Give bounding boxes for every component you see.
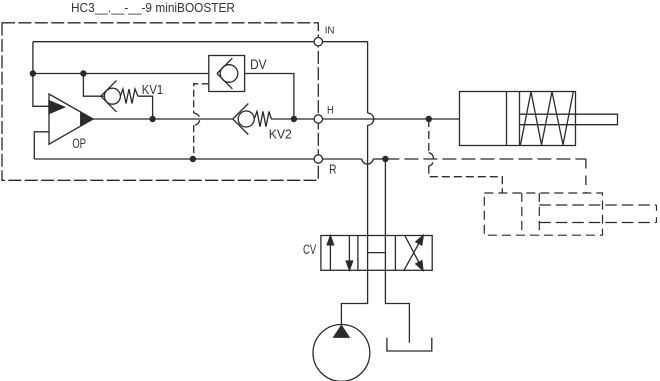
node pilot-R xyxy=(190,156,196,162)
OP inlet arrow 1 xyxy=(49,101,64,114)
svg-text:KV1: KV1 xyxy=(142,82,163,97)
R extension dashed to ghost cylinder rod side xyxy=(385,158,586,160)
wire IN down vertical upper xyxy=(367,42,369,113)
svg-text:HC3__.__-__-9 miniBOOSTER: HC3__.__-__-9 miniBOOSTER xyxy=(71,0,235,15)
valve CV left box down arrow xyxy=(348,236,350,262)
pump flow triangle xyxy=(334,326,349,338)
boundary dashed box HC3 miniBOOSTER xyxy=(2,23,318,181)
port IN xyxy=(314,38,322,46)
wire H line OP to KV2 xyxy=(93,118,233,120)
wire top IN line xyxy=(33,41,368,43)
R extension dashed down xyxy=(585,159,587,193)
wire OP bottom input xyxy=(34,132,49,159)
ghost cylinder rod dashed xyxy=(539,205,656,223)
svg-text:KV2: KV2 xyxy=(269,127,292,142)
svg-text:OP: OP xyxy=(72,136,86,151)
svg-text:DV: DV xyxy=(250,57,267,72)
pilot dashed to ghost cylinder cap side xyxy=(429,166,503,193)
valve CV center port lines xyxy=(368,236,386,271)
pilot hop over R extension xyxy=(429,153,434,166)
wire DV outlet to H xyxy=(238,74,294,120)
port H xyxy=(314,115,322,123)
wire KV1 outlet down to H xyxy=(138,96,153,119)
node pilot supply left xyxy=(30,70,36,76)
node junction dots xyxy=(30,70,432,162)
node KV1 branch xyxy=(80,70,86,76)
spring KV1 xyxy=(120,89,138,104)
tank xyxy=(387,338,432,351)
valve DV box xyxy=(209,56,245,92)
pump body xyxy=(313,325,370,381)
valve CV body xyxy=(321,236,432,271)
wire R line to junction xyxy=(373,158,385,160)
valve CV position dividers xyxy=(358,236,396,271)
check valve KV2 seat xyxy=(233,104,249,135)
wire H line KV2 to cylinder xyxy=(271,118,459,120)
spring KV2 xyxy=(254,111,271,126)
valve CV left box up arrow xyxy=(329,245,331,271)
check valve KV2 ball xyxy=(238,111,254,127)
pilot dashed H branch down xyxy=(428,119,430,153)
valve CV right box cross arrow 1 xyxy=(404,240,421,270)
valve CV right box cross arrow 2 xyxy=(405,236,421,266)
svg-text:R: R xyxy=(329,162,336,177)
wire left vertical of inner box xyxy=(33,42,49,107)
svg-text:CV: CV xyxy=(303,242,316,257)
svg-text:IN: IN xyxy=(325,25,335,36)
node H-pilot right xyxy=(426,116,432,122)
cylinder spring xyxy=(521,92,574,145)
node KV1-H xyxy=(149,116,155,122)
ghost cylinder piston dashed xyxy=(522,193,540,235)
wire pilot supply line y73.5 xyxy=(33,73,220,75)
OP outlet arrow 2 xyxy=(81,113,93,126)
wire R line left xyxy=(34,158,361,160)
node R-valve xyxy=(382,156,388,162)
wire KV1 branch down xyxy=(83,74,104,97)
op-amp OP intensifier body xyxy=(49,94,93,144)
pilot hop over H line xyxy=(194,113,200,125)
check valve KV1 ball xyxy=(104,88,120,104)
ghost cylinder body dashed xyxy=(484,193,602,235)
wire hop over H line xyxy=(368,113,374,125)
cylinder body xyxy=(460,92,576,146)
check valve KV1 seat xyxy=(101,81,117,112)
wire R junction down to valve xyxy=(384,159,386,236)
check valve DV ball xyxy=(220,65,238,83)
ghost cylinder rod end cap dashed xyxy=(656,205,658,223)
wire R line hop under vertical xyxy=(362,159,374,164)
wire valve T port to tank xyxy=(385,270,409,343)
node DV-H xyxy=(291,116,297,122)
cylinder rod xyxy=(520,114,618,125)
wire pump to valve P port xyxy=(341,270,367,324)
check valve DV seat xyxy=(217,58,232,89)
wire IN down vertical lower to valve xyxy=(367,125,369,235)
cylinder piston xyxy=(507,92,520,146)
pilot dashed DV to R xyxy=(194,84,209,113)
pilot dashed down to R dot xyxy=(193,125,195,159)
port R xyxy=(314,155,322,163)
svg-text:H: H xyxy=(327,105,334,117)
